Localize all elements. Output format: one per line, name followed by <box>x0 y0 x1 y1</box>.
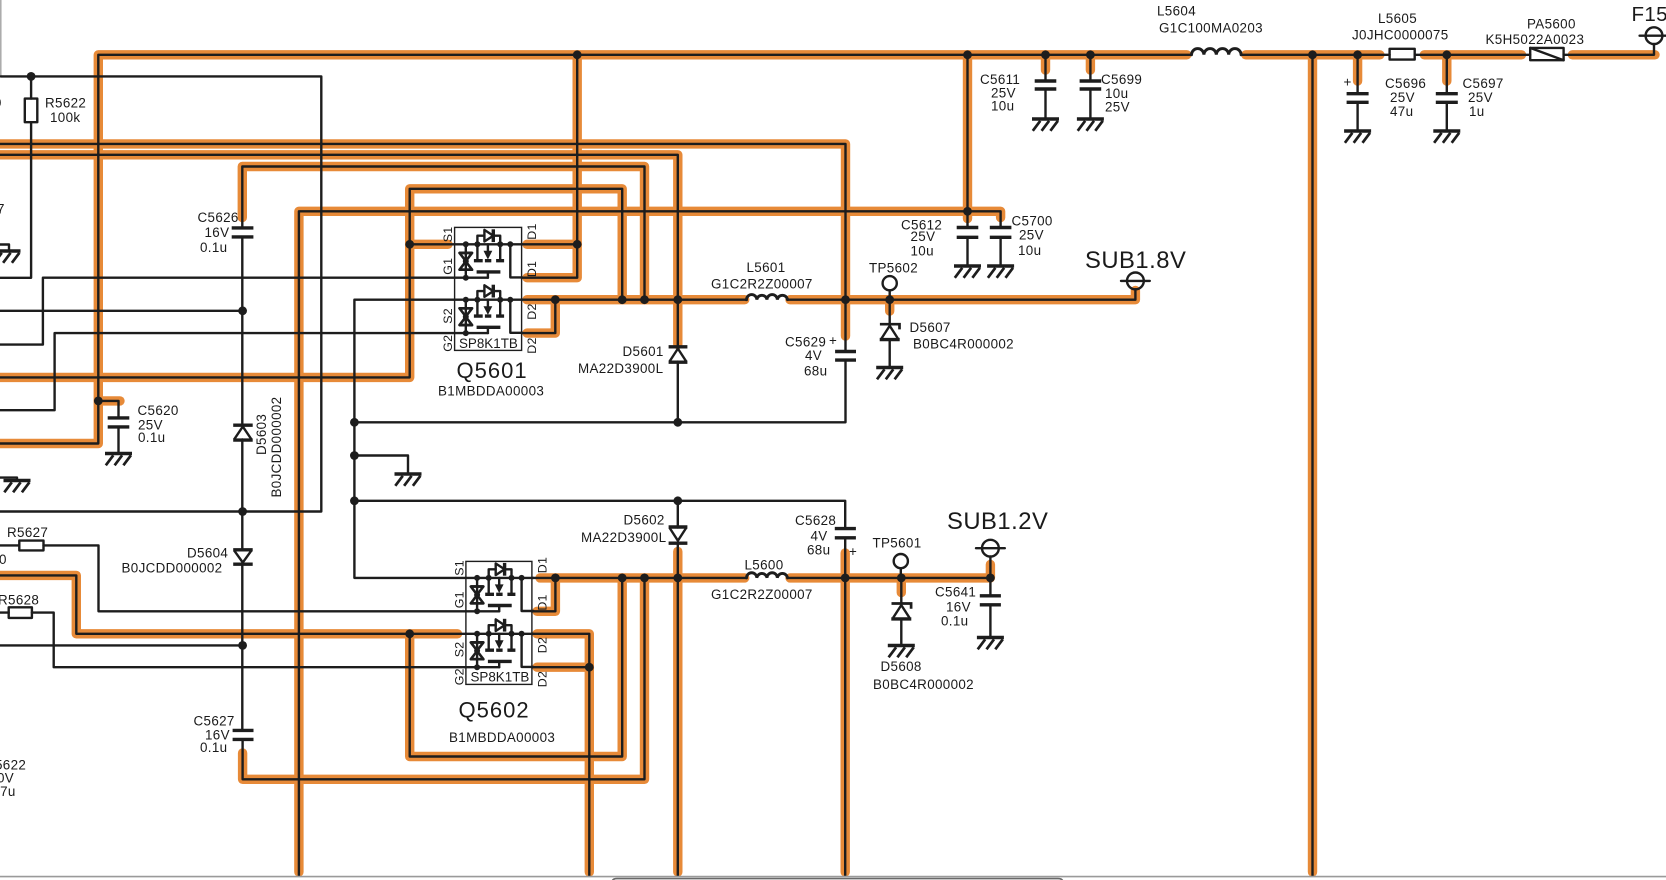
wire: highlighted switch-node net of Q5601 (S1 loop) <box>0 189 622 378</box>
diode D5602 <box>669 525 688 528</box>
svg-text:D1: D1 <box>535 557 549 573</box>
svg-text:SP8K1TB: SP8K1TB <box>471 670 530 685</box>
svg-text:68u: 68u <box>804 363 827 378</box>
wire: highlighted branch down at x967 to C5612/C5700 node <box>963 55 972 212</box>
wire: highlighted horizontal net y211 to C5700, corner down at x299 <box>299 211 1001 872</box>
capacitor C5612 <box>957 228 979 238</box>
wire: highlighted link C5627 to SUB1.2V rail <box>243 578 645 779</box>
wire: D5607 highlighted stub <box>885 300 894 311</box>
wire: C5620 branch from highlighted vertical <box>98 401 118 418</box>
capacitor C5641 <box>980 596 1001 605</box>
wire: ground branch of switch-node column <box>354 456 408 473</box>
inductor L5601 <box>747 295 788 300</box>
wire: G1 net of Q5601 from left edge <box>0 278 455 345</box>
wire: C5628 bottom lead and x845 vertical <box>844 539 846 876</box>
wire: net B black core through D5601 position <box>0 155 678 346</box>
wire: G2 net of Q5602 from R5628 <box>0 613 466 668</box>
svg-text:4V: 4V <box>811 528 828 543</box>
wire: highlighted net B from left edge down to D5601 <box>0 155 678 345</box>
diode D5604 <box>233 548 253 551</box>
svg-text:10u: 10u <box>911 244 934 259</box>
svg-text:16V: 16V <box>946 599 971 614</box>
wire: D2 staple of Q5602 black with drop <box>532 634 590 876</box>
svg-text:+: + <box>829 333 837 348</box>
wire: SUB1.2V rail black (right of L5600) and terminal stub <box>788 557 991 578</box>
capacitor C5700 <box>990 228 1012 238</box>
wire: C5611 lead <box>1044 55 1046 80</box>
svg-text:B0JCDD000002: B0JCDD000002 <box>122 561 223 576</box>
svg-text:S1: S1 <box>452 560 466 576</box>
wire: R5622 top lead <box>30 76 32 98</box>
svg-text:D2: D2 <box>525 337 539 353</box>
wire: D2 lower pin of Q5602 <box>532 666 590 668</box>
ground for D5608 <box>888 646 915 658</box>
wire: x1312 vertical black core <box>1311 55 1313 876</box>
svg-text:L5601: L5601 <box>747 260 786 275</box>
svg-text:D2: D2 <box>535 637 549 653</box>
wire: D2 staple of Q5601 black <box>522 300 556 333</box>
transistor Q5601 lower FET cell <box>455 285 522 336</box>
wire: highlighted D1 pin stub of Q5601 <box>527 240 577 249</box>
transistor Q5601 package box <box>455 227 522 350</box>
ground for C5697 <box>1433 131 1460 143</box>
wire: left-edge ground stub <box>0 478 17 481</box>
wire: D5607 leads <box>889 300 891 366</box>
svg-text:MA22D3900L: MA22D3900L <box>578 361 663 376</box>
svg-text:D1: D1 <box>525 261 539 277</box>
svg-text:C5697: C5697 <box>1463 76 1504 91</box>
wire: highlighted main supply net (top rail + left vertical drop) <box>0 55 1187 444</box>
wire: SUB1.8V rail highlight (left of L5601) <box>527 295 745 304</box>
svg-text:0.1u: 0.1u <box>138 430 165 445</box>
wire: C5697 lower lead <box>1446 103 1448 130</box>
wire: net y311 to diode chain <box>0 310 243 312</box>
zener diode D5608 <box>892 604 912 609</box>
svg-text:D1: D1 <box>535 594 549 610</box>
wire: C5611 highlighted stub <box>1041 55 1050 70</box>
svg-text:L5600: L5600 <box>745 557 784 572</box>
wire: S1 switch node black core <box>0 189 622 378</box>
transistor Q5602 package box <box>466 561 532 684</box>
wire: net y77 with vertical to y511 corner loop <box>0 76 321 511</box>
svg-text:D2: D2 <box>535 671 549 687</box>
wire: main rail segment after PA5600 to F15 corner <box>1572 50 1655 59</box>
svg-text:F15: F15 <box>1632 3 1666 26</box>
wire: highlighted U-loop from S2 node to SUB1.2V rail <box>410 578 623 757</box>
svg-text:G1C100MA0203: G1C100MA0203 <box>1159 21 1263 36</box>
wire: SUB1.8V rail black (right of L5601) and terminal stub <box>788 289 1136 300</box>
svg-text:SUB1.8V: SUB1.8V <box>1085 247 1186 274</box>
wire: S1 pin of Q5601 <box>410 243 455 245</box>
wire: highlighted S2 net of Q5602 from left edge <box>0 575 458 633</box>
wire: highlighted D5602 output chain down to page bottom <box>673 552 682 873</box>
svg-text:B0BC4R000002: B0BC4R000002 <box>873 677 974 692</box>
svg-text:C5699: C5699 <box>1101 72 1142 87</box>
transistor Q5602 upper FET cell <box>466 563 534 614</box>
svg-text:G2: G2 <box>441 335 455 352</box>
ground for C5700 <box>987 266 1014 278</box>
capacitor C5629 <box>835 352 856 361</box>
wire: D5608 leads <box>900 578 902 644</box>
svg-text:7: 7 <box>0 202 5 217</box>
wire: C5699 highlighted stub <box>1086 55 1095 70</box>
ground for C5699 <box>1077 119 1104 131</box>
svg-text:16V: 16V <box>205 225 230 240</box>
svg-text:C5641: C5641 <box>935 584 976 599</box>
svg-text:25V: 25V <box>1468 90 1493 105</box>
svg-text:B0BC4R000002: B0BC4R000002 <box>913 337 1014 352</box>
svg-text:100k: 100k <box>50 110 80 125</box>
transistor Q5602 lower FET cell <box>466 619 534 670</box>
wire: main rail segment between L5604 and L5605 <box>1246 50 1380 59</box>
wire: net y645 to diode chain <box>0 644 243 646</box>
svg-text:.7u: .7u <box>0 784 16 799</box>
wire: net y500 from switch column to C5628 <box>354 501 845 527</box>
capacitor C5626 <box>232 228 254 237</box>
svg-text:B0JCDD000002: B0JCDD000002 <box>269 397 284 498</box>
wire: R5622 bottom lead down to left-edge exit <box>0 122 31 278</box>
wire: highlighted D1 staple of Q5602 <box>537 578 555 611</box>
wire: G1 net of Q5602 from R5627 <box>0 545 466 611</box>
svg-text:0.1u: 0.1u <box>200 240 227 255</box>
wire: highlighted net A from left edge to C5629 column <box>0 144 846 336</box>
svg-text:D1: D1 <box>525 223 539 239</box>
svg-text:G2: G2 <box>452 668 466 685</box>
inductor L5605 ferrite bead <box>1390 49 1415 60</box>
wire: D5602 cathode-side leads <box>677 501 679 876</box>
wire: highlighted long vertical drop at x1312 <box>1308 55 1317 872</box>
test point TP5602 <box>883 276 897 290</box>
svg-text:10u: 10u <box>991 99 1014 114</box>
resistor R5627 <box>19 541 43 551</box>
ground at left edge near label 7 <box>0 251 21 263</box>
svg-text:C5628: C5628 <box>795 513 836 528</box>
wire: net C black core <box>242 167 644 300</box>
wire: TP5602 stub <box>889 290 891 299</box>
wire: S1 pin highlighted stub <box>410 240 448 249</box>
capacitor C5620 <box>108 418 130 427</box>
svg-text:47u: 47u <box>1390 104 1413 119</box>
svg-text:25V: 25V <box>1105 100 1130 115</box>
terminal SUB1.8V <box>1127 273 1144 290</box>
svg-text:D5601: D5601 <box>623 344 664 359</box>
capacitor C5699 <box>1080 81 1102 89</box>
svg-text:L5605: L5605 <box>1378 11 1417 26</box>
wire: highlighted net C from C5626 to SUB1.8V rail <box>242 167 644 300</box>
svg-text:R5622: R5622 <box>45 96 86 111</box>
svg-text:B1MBDDA00003: B1MBDDA00003 <box>449 730 555 745</box>
wire: C5641 leads <box>989 578 991 636</box>
wire: C5627 link black core <box>243 578 645 779</box>
ground at left edge <box>4 481 31 493</box>
wire: C5699 lower lead <box>1089 90 1091 118</box>
terminal SUB1.2V <box>982 540 999 557</box>
fuse PA5600 <box>1530 48 1563 60</box>
svg-text:+: + <box>1344 75 1352 90</box>
wire: G2 net of Q5601 from left edge <box>0 333 455 410</box>
svg-text:25V: 25V <box>1019 227 1044 242</box>
svg-text:J0JHC0000075: J0JHC0000075 <box>1352 28 1449 43</box>
svg-text:C5620: C5620 <box>138 403 179 418</box>
svg-text:4V: 4V <box>805 348 822 363</box>
wire: D1 staple of Q5602 black <box>532 578 556 611</box>
wire: C5697 lead <box>1446 55 1448 93</box>
wire: D5608 highlighted stub <box>897 578 906 593</box>
wire: C5620 highlighted stub <box>98 396 120 405</box>
wire: diode chain vertical C5626-D5603-D5604-C5627 <box>241 238 243 729</box>
wire: U-loop black core <box>410 578 623 757</box>
svg-text:SP8K1TB: SP8K1TB <box>459 336 518 351</box>
wire: SUB1.2V rail highlight (left of L5600) <box>540 573 745 582</box>
resistor R5628 <box>9 607 32 618</box>
capacitor C5696 <box>1347 94 1369 103</box>
ground for D5607 <box>876 368 903 380</box>
svg-text:PA5600: PA5600 <box>1527 17 1576 32</box>
wire: C5612 leads and C5700 leads <box>968 239 1001 265</box>
svg-text:Q5602: Q5602 <box>459 698 530 723</box>
wire: highlighted D2 staple of Q5601 <box>527 300 555 333</box>
wire: highlighted D1 staple of Q5601 up to main rail <box>527 55 577 278</box>
svg-text:68u: 68u <box>807 543 830 558</box>
wire: C5696 lower lead <box>1356 103 1358 130</box>
wire: net y211 black core <box>299 211 1001 875</box>
wire: S2 net of Q5602 black core <box>0 575 466 633</box>
wire: net y422 from switch column to C5629 <box>354 361 845 422</box>
capacitor C5611 <box>1035 81 1057 89</box>
wire: main rail black between L5604 and L5605 <box>1241 54 1390 56</box>
svg-text:G1C2R2Z00007: G1C2R2Z00007 <box>711 277 813 292</box>
svg-text:0.1u: 0.1u <box>200 740 227 755</box>
svg-text:25V: 25V <box>1390 90 1415 105</box>
zener diode D5607 <box>880 324 900 329</box>
test point TP5601 <box>894 554 908 568</box>
svg-text:Q5601: Q5601 <box>457 358 528 383</box>
svg-text:1u: 1u <box>1469 104 1485 119</box>
transistor Q5601 upper FET cell <box>455 229 522 280</box>
svg-text:S1: S1 <box>441 227 455 243</box>
capacitor C5697 <box>1436 94 1458 103</box>
wire: main rail black between L5605 and PA5600 <box>1415 54 1531 56</box>
wire: C5612 highlighted stub <box>963 211 972 218</box>
ground for switch-node branch <box>395 474 422 486</box>
svg-text:C5626: C5626 <box>198 210 239 225</box>
wire: x967 branch black core <box>966 55 968 226</box>
svg-text:G1C2R2Z00007: G1C2R2Z00007 <box>711 587 813 602</box>
wire: net A black core <box>0 144 846 350</box>
wire: highlighted C5628 stub and vertical drop at x845 <box>841 553 850 872</box>
wire: SUB1.2V rail highlight (right of L5600) up to terminal <box>790 565 990 578</box>
svg-text:R5627: R5627 <box>7 525 48 540</box>
svg-text:C5627: C5627 <box>194 713 235 728</box>
sheet bottom border line <box>0 876 1666 878</box>
resistor R5622 <box>25 99 38 123</box>
ground for C5612 <box>954 266 981 278</box>
wire: SUB1.2V rail black (left of L5600) <box>532 577 747 579</box>
svg-text:10u: 10u <box>1018 243 1041 258</box>
ground for C5620 <box>105 454 132 466</box>
ground for C5641 <box>977 638 1004 650</box>
svg-text:S2: S2 <box>441 308 455 324</box>
wire: TP5601 stub <box>900 568 902 578</box>
sheet border fragment top-left <box>0 0 2 76</box>
wire: C5696 lead <box>1356 55 1358 93</box>
svg-text:25V: 25V <box>911 229 936 244</box>
ground for C5696 <box>1344 131 1371 143</box>
svg-text:D5602: D5602 <box>624 513 665 528</box>
svg-text:C5700: C5700 <box>1012 214 1053 229</box>
wire: clipped stub at left edge with ground <box>0 245 9 251</box>
svg-text:D5607: D5607 <box>910 320 951 335</box>
svg-text:S2: S2 <box>452 642 466 658</box>
svg-text:D5608: D5608 <box>881 659 922 674</box>
svg-text:D5604: D5604 <box>187 546 228 561</box>
wire: D1 staple of Q5601 black <box>522 55 578 278</box>
svg-text:D5603: D5603 <box>254 414 269 455</box>
title block box top edge at bottom <box>612 879 1063 880</box>
svg-text:0: 0 <box>0 552 7 567</box>
svg-text:TP5602: TP5602 <box>869 261 918 276</box>
wire: C5611 lower lead <box>1044 90 1046 118</box>
wire: main rail black after PA5600 and stub up to F15 <box>1564 44 1654 55</box>
diode D5601 <box>669 345 688 348</box>
wire: C5697 highlighted stub <box>1442 55 1451 81</box>
wire: main rail segment between L5605 and PA5600 <box>1424 50 1521 59</box>
capacitor C5627 <box>233 730 254 739</box>
wire: C5699 lead <box>1089 55 1091 80</box>
wire: S2 node vertical of Q5601 down to Q5602 S1 <box>354 300 466 578</box>
svg-text:SUB1.2V: SUB1.2V <box>947 508 1048 535</box>
svg-text:L5604: L5604 <box>1157 4 1196 19</box>
wire: D5601 anode lead <box>677 362 679 423</box>
wire: main top rail black core <box>0 55 1192 444</box>
ground for C5611 <box>1032 119 1059 131</box>
capacitor C5628 <box>835 529 856 538</box>
wire: C5696 highlighted stub <box>1353 55 1362 81</box>
svg-text:G1: G1 <box>452 591 466 608</box>
wire: SUB1.8V rail highlight (right of L5601) up to terminal <box>790 291 1135 300</box>
svg-text:MA22D3900L: MA22D3900L <box>581 530 666 545</box>
svg-text:D2: D2 <box>525 303 539 319</box>
inductor L5600 <box>747 573 788 578</box>
terminal F15 <box>1646 27 1663 44</box>
svg-text:+: + <box>849 544 857 559</box>
inductor L5604 <box>1192 49 1242 55</box>
wire: highlighted D2 lower pin stub of Q5602 <box>537 663 589 672</box>
svg-text:B1MBDDA00003: B1MBDDA00003 <box>438 384 544 399</box>
wire: highlighted D2 staple of Q5602 and vertical drop at x590 <box>537 634 589 872</box>
wire: C5620 lower lead <box>117 428 119 452</box>
wire: D1 top pin of Q5601 <box>522 243 578 245</box>
svg-text:TP5601: TP5601 <box>873 536 922 551</box>
svg-text:G1: G1 <box>441 258 455 275</box>
wire: SUB1.8V rail black (left of L5601) <box>522 299 747 301</box>
svg-text:C5696: C5696 <box>1385 76 1426 91</box>
diode D5603 <box>233 424 253 427</box>
svg-text:R5628: R5628 <box>0 592 39 607</box>
svg-text:9: 9 <box>0 95 2 110</box>
svg-text:0.1u: 0.1u <box>941 614 968 629</box>
svg-text:K5H5022A0023: K5H5022A0023 <box>1486 32 1585 47</box>
